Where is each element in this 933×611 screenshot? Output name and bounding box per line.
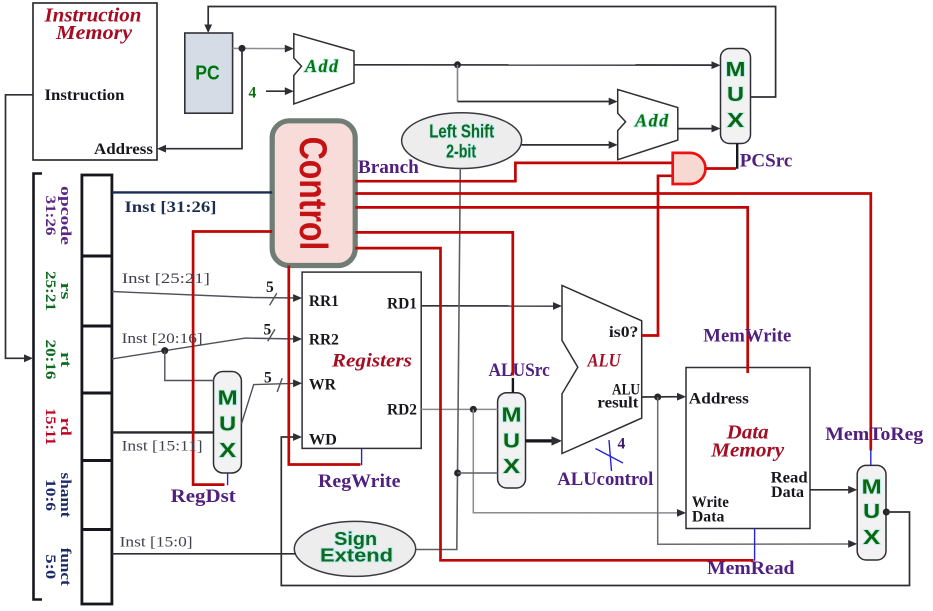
field label opcode 31:26 (42, 186, 73, 245)
bus slash 5 on WR wire (277, 378, 282, 392)
svg-text:Memory: Memory (55, 22, 132, 44)
wire tap down to MUX M2 input 0 (165, 351, 214, 381)
wire Instruction output to bracket (6, 95, 34, 359)
arrow into Add2 input 2 (609, 141, 618, 149)
svg-text:M: M (862, 476, 882, 498)
svg-text:31:26: 31:26 (42, 196, 58, 237)
svg-text:Inst [25:21]: Inst [25:21] (122, 271, 210, 287)
svg-text:Inst [31:26]: Inst [31:26] (125, 199, 217, 216)
select stub MemRead (754, 529, 756, 561)
wire RD1 to ALU input (421, 305, 557, 307)
wire ALU result to Data Memory address (642, 396, 682, 398)
ALUcontrol stub with slash 4 (596, 436, 626, 471)
svg-text:rs: rs (57, 283, 73, 300)
wire Inst [25:21] to RR1 (112, 292, 298, 299)
svg-text:PCSrc: PCSrc (740, 151, 793, 172)
wire LeftShift output to Add2 (522, 144, 614, 146)
wire Sign Extend up to Left Shift (416, 168, 461, 549)
node MUX M4 output (883, 509, 890, 516)
svg-text:Inst [15:0]: Inst [15:0] (120, 535, 193, 551)
mux M2 (RegDst) (214, 372, 242, 474)
svg-text:Add: Add (634, 111, 669, 131)
bus slash 5 on RR1 wire (270, 293, 277, 305)
wire RD2 tap down to Data Memory write data (473, 409, 681, 513)
svg-text:4: 4 (249, 84, 257, 101)
svg-text:Address: Address (94, 141, 153, 158)
instruction field split box (82, 175, 112, 604)
arrow into DM Write Data (677, 509, 686, 517)
wire Inst [20:16] to RR2 (112, 338, 298, 359)
select stub RegDst (227, 473, 229, 485)
svg-text:M: M (502, 405, 522, 427)
svg-text:RR2: RR2 (309, 332, 339, 349)
wire RegWrite (red) to Registers (289, 266, 361, 465)
svg-text:ALUSrc: ALUSrc (489, 360, 550, 381)
field label funct 5:0 (42, 548, 73, 586)
svg-text:U: U (503, 431, 520, 453)
svg-text:Branch: Branch (358, 157, 419, 178)
sign extend oval (294, 521, 415, 576)
PC register (185, 33, 233, 113)
field label rt 20:16 (42, 340, 73, 381)
svg-text:Memory: Memory (710, 440, 784, 462)
svg-text:WD: WD (309, 432, 337, 449)
mux M3 (ALUSrc) (498, 393, 526, 488)
arrow into RR2 (293, 335, 302, 343)
wire PC down to IM Address (161, 48, 242, 148)
svg-text:U: U (863, 501, 880, 523)
field label rd 15:11 (42, 408, 73, 445)
svg-text:PC: PC (195, 61, 220, 84)
arrow into WR (293, 379, 302, 387)
svg-text:X: X (503, 456, 521, 478)
wire MemToReg (red) to MUX M4 select (355, 194, 871, 451)
svg-text:rt: rt (57, 352, 73, 367)
svg-text:Instruction: Instruction (45, 87, 125, 104)
svg-text:result: result (597, 394, 639, 411)
svg-text:U: U (219, 414, 236, 436)
wire PC feedback top loop (208, 7, 775, 98)
wire RD2 to MUX M3 input 0 (421, 408, 497, 410)
wire Add1 output down to Add2 (457, 65, 459, 102)
wire tap to MUX M3 input 1 (457, 472, 497, 474)
wire Inst [31:26] to Control (112, 191, 272, 193)
control unit (272, 121, 355, 266)
svg-text:rd: rd (57, 418, 73, 437)
wire Add2 output to MUX M1 (678, 128, 716, 130)
wire is0 (red) to AND gate (642, 176, 672, 336)
wire Add1 output to MUX M1 (354, 64, 716, 66)
svg-text:shamt: shamt (57, 473, 73, 518)
wire MemWrite (red) to Data Memory (355, 207, 747, 373)
svg-text:15:11: 15:11 (42, 408, 58, 445)
svg-text:WR: WR (309, 377, 337, 394)
svg-text:10:6: 10:6 (42, 479, 58, 512)
select stub PCSrc (736, 144, 738, 169)
svg-text:M: M (218, 388, 238, 410)
svg-text:is0?: is0? (609, 324, 639, 341)
wire Inst [15:0] to Sign Extend (112, 553, 296, 555)
wire MemRead (red) to Data Memory bottom (355, 248, 753, 560)
svg-text:X: X (727, 110, 745, 132)
svg-text:funct: funct (57, 548, 73, 586)
arrow into MUX M4 input 0 (848, 486, 857, 494)
arrow into PC (204, 25, 212, 34)
svg-text:MemToReg: MemToReg (825, 424, 924, 445)
data memory box U3 (686, 368, 810, 529)
arrow into WD (293, 433, 302, 441)
wire MUX M4 output back to WD (281, 437, 909, 586)
adder Add2 (branch target) (618, 90, 678, 160)
svg-text:Left Shift: Left Shift (429, 122, 494, 142)
arrow into DM Address (677, 393, 686, 401)
arrow into instruction bracket (24, 354, 33, 362)
svg-text:5: 5 (266, 279, 274, 296)
svg-text:Extend: Extend (320, 546, 393, 566)
svg-text:Data: Data (692, 509, 725, 526)
wire ALU result down to MUX M4 input 1 (658, 397, 853, 544)
arrow into MUX M1 input 0 (712, 61, 721, 69)
left shift 2-bit oval (402, 113, 522, 169)
svg-text:M: M (726, 59, 746, 81)
instruction memory box U1 (33, 3, 157, 160)
wire RegDst (red) to MUX M2 select (193, 232, 272, 485)
arrow into MUX M4 input 1 (848, 540, 857, 548)
node Inst [20:16] tap (161, 347, 168, 354)
arrow into Add1 input 2 (285, 87, 294, 95)
svg-text:5:0: 5:0 (42, 554, 58, 579)
bus slash 5 on RR2 wire (268, 329, 275, 341)
svg-text:Data: Data (771, 484, 804, 501)
AND gate (branch AND is0) (673, 153, 706, 184)
svg-text:RD2: RD2 (387, 402, 417, 419)
arrow into ALU input 1 (553, 302, 562, 310)
svg-text:X: X (219, 440, 237, 462)
wire MUX M3 output to ALU (thick) (526, 439, 554, 442)
arrow into Add1 input 1 (285, 45, 294, 53)
arrow into MUX M1 input 1 (712, 125, 721, 133)
svg-text:Inst [20:16]: Inst [20:16] (122, 331, 203, 347)
svg-text:4: 4 (618, 436, 626, 453)
field label shamt 10:6 (42, 473, 73, 518)
wire MUX M2 output to WR (241, 383, 297, 424)
svg-text:RegWrite: RegWrite (318, 471, 401, 492)
arrow into Add2 input 1 (609, 98, 618, 106)
mux M4 (MemToReg) (857, 465, 886, 560)
svg-text:opcode: opcode (57, 186, 73, 245)
instruction bracket (34, 174, 43, 600)
svg-text:5: 5 (264, 370, 272, 387)
adder Add1 (PC+4) (294, 34, 354, 104)
field label rs 25:21 (42, 271, 73, 311)
registers file (302, 272, 421, 448)
arrow into IM Address (157, 145, 166, 153)
svg-text:U: U (727, 84, 744, 106)
svg-text:Control: Control (291, 137, 334, 251)
node PC output (239, 45, 246, 52)
arrow into ALU input 2 (thick) (552, 436, 563, 445)
wire 4 to Add1 (266, 90, 290, 92)
svg-text:5: 5 (264, 322, 272, 339)
svg-text:RD1: RD1 (387, 296, 417, 313)
wire Branch (red) control to AND gate (355, 163, 671, 181)
svg-text:MemWrite: MemWrite (703, 326, 791, 347)
svg-text:Inst [15:11]: Inst [15:11] (122, 439, 203, 455)
select stub MemToReg (870, 450, 872, 466)
svg-text:RegDst: RegDst (171, 486, 237, 507)
wire Inst [15:11] to MUX M2 input 1 (112, 431, 214, 433)
svg-text:Add: Add (304, 56, 339, 76)
svg-text:Address: Address (689, 391, 749, 408)
svg-text:X: X (863, 527, 881, 549)
select stub RegWrite (361, 448, 363, 465)
wire AND output (red) (706, 167, 736, 170)
svg-text:ALU: ALU (587, 351, 622, 372)
node sign extend tap (454, 470, 461, 477)
svg-text:2-bit: 2-bit (446, 142, 476, 162)
svg-text:Registers: Registers (331, 352, 412, 372)
wire ALUSrc (red) to MUX M3 select (355, 232, 513, 375)
svg-text:ALUcontrol: ALUcontrol (557, 469, 653, 490)
select stub ALUSrc (512, 378, 514, 393)
arrow into RR1 (293, 294, 302, 302)
mux M1 (PC source, top right) (721, 49, 751, 144)
node RD2 tap (470, 406, 477, 413)
wire Read Data to MUX M4 input 0 (810, 489, 853, 491)
node ALU result (654, 394, 661, 401)
wire PC to Add1 (233, 47, 290, 49)
node Add1 output (454, 61, 461, 68)
svg-text:20:16: 20:16 (42, 340, 58, 381)
ALU U2 (562, 285, 642, 453)
svg-text:RR1: RR1 (309, 293, 339, 310)
svg-text:MemRead: MemRead (707, 558, 795, 579)
svg-text:25:21: 25:21 (42, 271, 58, 311)
